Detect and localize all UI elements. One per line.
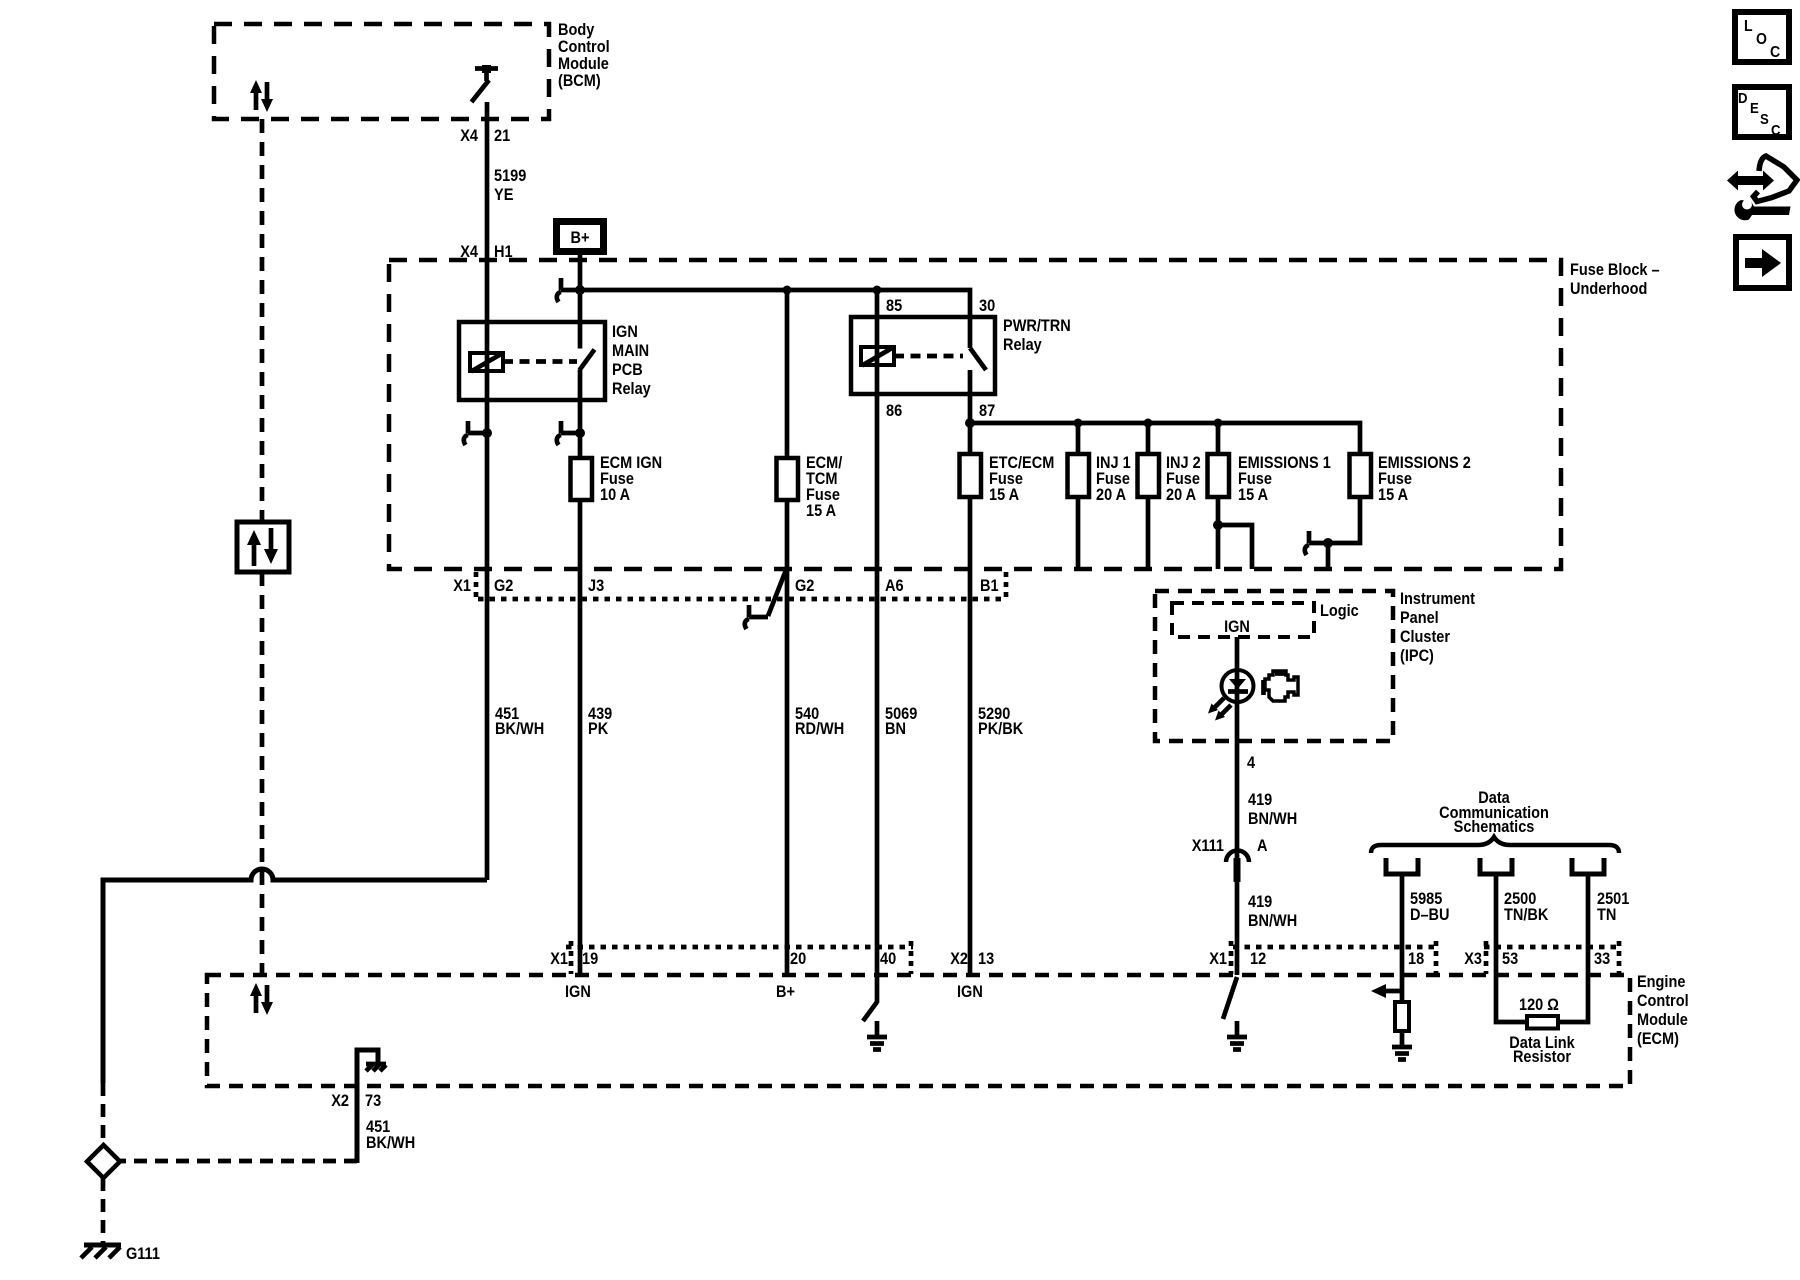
wire pin 18 to resistor bbox=[1400, 975, 1405, 1002]
label 5985 D-BU bbox=[1410, 890, 1450, 924]
junction dot bus at INJ2 bbox=[1144, 419, 1153, 428]
svg-text:BN: BN bbox=[885, 720, 906, 738]
wire 2500 TN/BK bbox=[1494, 876, 1499, 975]
label ECM IGN Fuse 10 A bbox=[600, 454, 662, 504]
label ETC/ECM Fuse 15 A bbox=[989, 454, 1054, 504]
label wire 540 RD/WH bbox=[795, 705, 844, 738]
svg-text:BK/WH: BK/WH bbox=[366, 1134, 415, 1152]
label EMISSIONS 2 Fuse 15 A bbox=[1378, 454, 1471, 504]
label INJ 1 Fuse 20 A bbox=[1096, 454, 1131, 504]
relay switch blade IGN MAIN bbox=[580, 350, 595, 371]
wire relay coil 85-86 (through PWR/TRN) bbox=[875, 290, 880, 975]
wire 87 distribution bus bbox=[970, 423, 1360, 454]
chassis ground inside ECM at pin 73 bbox=[357, 1050, 386, 1163]
svg-text:15 A: 15 A bbox=[1238, 486, 1268, 504]
svg-text:C: C bbox=[1771, 122, 1781, 139]
svg-text:X1: X1 bbox=[1209, 950, 1227, 968]
svg-text:D–BU: D–BU bbox=[1410, 906, 1450, 924]
svg-text:Module: Module bbox=[1637, 1011, 1688, 1029]
svg-text:53: 53 bbox=[1502, 950, 1518, 968]
module box IPC (Instrument Panel Cluster) bbox=[1155, 591, 1393, 741]
label pins 85 30 86 87 bbox=[886, 297, 995, 420]
icon next-page (right arrow button) bbox=[1736, 237, 1789, 288]
svg-text:B+: B+ bbox=[776, 983, 795, 1001]
svg-text:E: E bbox=[1750, 100, 1759, 117]
svg-text:20: 20 bbox=[790, 950, 806, 968]
relay U1 IGN MAIN PCB Relay box bbox=[459, 322, 605, 400]
wire ECM/TCM feed bbox=[785, 290, 790, 458]
svg-text:S: S bbox=[1760, 111, 1769, 128]
svg-text:4: 4 bbox=[1247, 754, 1256, 772]
switch to ground at pin 40 bbox=[863, 975, 877, 1021]
svg-text:15 A: 15 A bbox=[806, 502, 836, 520]
svg-text:BN/WH: BN/WH bbox=[1248, 810, 1297, 828]
label wire 439 PK bbox=[588, 705, 612, 738]
svg-text:IGN: IGN bbox=[565, 983, 591, 1001]
wire EMISSIONS2 output to terminal bbox=[1328, 497, 1360, 543]
fuse EMISSIONS 1 15A bbox=[1208, 454, 1230, 497]
svg-text:120 Ω: 120 Ω bbox=[1519, 996, 1559, 1014]
wire dashed down to splice bbox=[101, 1083, 106, 1146]
fuse ECM IGN 10A bbox=[571, 458, 593, 500]
svg-text:86: 86 bbox=[886, 402, 902, 420]
svg-text:40: 40 bbox=[880, 950, 896, 968]
off-page connector for wire 5985 bbox=[1386, 858, 1418, 874]
svg-text:B1: B1 bbox=[980, 577, 999, 595]
LED emission arrows bbox=[1208, 698, 1231, 721]
svg-text:13: 13 bbox=[978, 950, 994, 968]
fuse INJ 2 20A bbox=[1138, 454, 1160, 497]
wire INJ2 feed bbox=[1146, 423, 1151, 454]
svg-text:PCB: PCB bbox=[612, 361, 643, 379]
wire pin 53 to data link resistor bbox=[1496, 975, 1527, 1022]
ground symbol at pin 12 bbox=[1227, 1021, 1247, 1050]
serial-data arrows inside BCM bbox=[250, 80, 273, 112]
wire 419 BN/WH to ECM pin 12 bbox=[1235, 862, 1240, 975]
svg-text:419: 419 bbox=[1248, 791, 1272, 809]
svg-text:5199: 5199 bbox=[494, 167, 526, 185]
svg-text:MAIN: MAIN bbox=[612, 342, 649, 360]
label IPC name bbox=[1400, 590, 1475, 665]
terminal hook below relay on switch output bbox=[557, 421, 585, 445]
relay dashed actuating link PWR/TRN bbox=[894, 354, 963, 359]
off-page connector for wire 2501 bbox=[1572, 858, 1604, 874]
connector separator ticks fuse block bbox=[474, 572, 479, 600]
junction dot rail at ECM/TCM feed bbox=[783, 286, 792, 295]
junction dot 87 bus bbox=[965, 418, 975, 428]
connector X111 pass-through bbox=[1226, 851, 1249, 883]
wire INJ2 output bbox=[1146, 497, 1151, 569]
svg-text:X4: X4 bbox=[460, 127, 479, 145]
wire INJ1 feed bbox=[1076, 423, 1081, 454]
icon LOC button bbox=[1735, 12, 1789, 62]
svg-text:PK: PK bbox=[588, 720, 608, 738]
svg-text:D: D bbox=[1738, 90, 1748, 107]
wire pin 87 down to ETC/ECM fuse bbox=[968, 370, 973, 454]
wire dashed splice to G111 bbox=[101, 1178, 106, 1243]
label ECM name bbox=[1637, 973, 1689, 1048]
svg-text:21: 21 bbox=[494, 127, 510, 145]
off-page connector for wire 2500 bbox=[1480, 858, 1512, 874]
terminal hook EMISSIONS2 output bbox=[1305, 531, 1328, 555]
wire 2501 TN bbox=[1586, 876, 1591, 975]
connector separator ticks ECM left bbox=[571, 941, 911, 974]
svg-text:BN/WH: BN/WH bbox=[1248, 912, 1297, 930]
module box Fuse Block - Underhood bbox=[389, 260, 1561, 569]
svg-text:10 A: 10 A bbox=[600, 486, 630, 504]
label pin X2 73 bbox=[331, 1092, 381, 1110]
svg-text:419: 419 bbox=[1248, 893, 1272, 911]
label PWR/TRN Relay bbox=[1003, 317, 1071, 354]
power feed B+ symbol bbox=[557, 222, 604, 252]
serial data arrows inside ECM bbox=[250, 983, 273, 1015]
connector separator ticks ECM right bbox=[1231, 941, 1619, 974]
relay switch blade PWR/TRN bbox=[970, 348, 986, 370]
terminal hook at B+ rail bbox=[557, 278, 580, 302]
connector stub at fuse block G2 output bbox=[745, 570, 786, 629]
label 2501 TN bbox=[1597, 890, 1629, 924]
label 5199 YE bbox=[494, 167, 526, 204]
svg-text:(BCM): (BCM) bbox=[558, 72, 601, 90]
termination arrow at pin 18 bbox=[1371, 984, 1402, 998]
connector row dotted line ECM X3 bbox=[1484, 945, 1617, 950]
svg-text:IGN: IGN bbox=[612, 323, 638, 341]
svg-text:19: 19 bbox=[582, 950, 598, 968]
wire left dashed serial data line (BCM down) bbox=[260, 119, 265, 522]
switch (driver output) inside BCM bbox=[472, 65, 499, 102]
junction dot EMISSIONS2 terminal bbox=[1323, 538, 1333, 548]
label pin X1 19 IGN bbox=[550, 950, 598, 1001]
svg-text:Module: Module bbox=[558, 55, 609, 73]
wire EMISSIONS1 feed bbox=[1216, 423, 1221, 454]
svg-text:Resistor: Resistor bbox=[1513, 1048, 1572, 1066]
svg-text:J3: J3 bbox=[588, 577, 604, 595]
svg-text:30: 30 bbox=[979, 297, 995, 315]
label X4 H1 bbox=[460, 243, 512, 261]
ground symbol at pin 18 resistor bbox=[1392, 1047, 1412, 1060]
fuse ETC/ECM 15A bbox=[960, 454, 982, 497]
svg-text:X2: X2 bbox=[331, 1092, 349, 1110]
relay dashed actuating link bbox=[503, 359, 577, 364]
svg-text:85: 85 bbox=[886, 297, 902, 315]
svg-text:20 A: 20 A bbox=[1166, 486, 1196, 504]
svg-text:IGN: IGN bbox=[957, 983, 983, 1001]
wire resistor to ground bbox=[1400, 1031, 1405, 1046]
label fuse block name bbox=[1570, 261, 1660, 298]
label EMISSIONS 1 Fuse 15 A bbox=[1238, 454, 1331, 504]
label pin X1 12 bbox=[1209, 950, 1266, 968]
label pin 20 B+ bbox=[776, 950, 806, 1001]
svg-text:Cluster: Cluster bbox=[1400, 628, 1450, 646]
wire data link resistor to pin 33 bbox=[1558, 975, 1588, 1022]
wire EMISSIONS1 branch to edge bbox=[1218, 525, 1252, 569]
wire ECM IGN fuse output to ECM pin 19 bbox=[578, 500, 583, 975]
label wire 5069 BN bbox=[885, 705, 917, 738]
svg-text:G2: G2 bbox=[795, 577, 814, 595]
brace over data communication wires bbox=[1371, 837, 1619, 853]
wire dashed serial data line (to ECM) bbox=[260, 572, 265, 975]
wire 419 BN/WH to X111 bbox=[1235, 741, 1240, 862]
junction dot EMISSIONS1 branch bbox=[1213, 520, 1223, 530]
label wire 5290 PK/BK bbox=[978, 705, 1023, 738]
wire ECM/TCM fuse output to ECM pin 20 bbox=[785, 500, 790, 975]
wire INJ1 output bbox=[1076, 497, 1081, 569]
junction dot bus at INJ1 bbox=[1074, 419, 1083, 428]
label INJ 2 Fuse 20 A bbox=[1166, 454, 1201, 504]
wire ETC/ECM fuse output to ECM pin 13 bbox=[968, 497, 973, 975]
wire EMISSIONS1 output bbox=[1216, 497, 1221, 569]
icon DESC button bbox=[1735, 87, 1789, 139]
svg-text:Logic: Logic bbox=[1320, 602, 1359, 620]
svg-text:L: L bbox=[1744, 18, 1753, 35]
wire B+ feed down bbox=[578, 255, 583, 349]
svg-text:15 A: 15 A bbox=[1378, 486, 1408, 504]
svg-text:A: A bbox=[1257, 837, 1268, 855]
wire B+ rail to PWR/TRN relay pin 30 bbox=[580, 290, 970, 348]
svg-text:(IPC): (IPC) bbox=[1400, 647, 1434, 665]
svg-text:15 A: 15 A bbox=[989, 486, 1019, 504]
terminal hook below relay on coil return bbox=[464, 421, 492, 445]
label 419 BN/WH upper bbox=[1248, 791, 1297, 828]
svg-text:87: 87 bbox=[979, 402, 995, 420]
svg-text:O: O bbox=[1756, 31, 1767, 48]
svg-text:Engine: Engine bbox=[1637, 973, 1685, 991]
svg-text:BK/WH: BK/WH bbox=[495, 720, 544, 738]
svg-text:TN: TN bbox=[1597, 906, 1616, 924]
relay coil IGN MAIN bbox=[470, 353, 503, 372]
svg-text:X1: X1 bbox=[550, 950, 568, 968]
label wire 451 BK/WH bbox=[495, 705, 544, 738]
svg-text:X2: X2 bbox=[950, 950, 968, 968]
fuse block bottom connector labels X1 G2 J3 G2 A6 B1 bbox=[453, 577, 998, 595]
indicator LED (MIL lamp) bbox=[1222, 669, 1254, 741]
svg-text:(ECM): (ECM) bbox=[1637, 1030, 1679, 1048]
svg-text:20 A: 20 A bbox=[1096, 486, 1126, 504]
svg-text:G111: G111 bbox=[126, 1245, 160, 1263]
svg-text:12: 12 bbox=[1250, 950, 1266, 968]
label BCM name bbox=[558, 21, 610, 90]
svg-text:A6: A6 bbox=[885, 577, 904, 595]
wire IGN logic to indicator bbox=[1235, 637, 1240, 669]
wire coil feed through relay (5199 continues) bbox=[485, 264, 490, 880]
module box BCM (Body Control Module) bbox=[214, 24, 549, 119]
ground G111 bbox=[81, 1245, 160, 1263]
resistor R 120 ohm data link bbox=[1527, 1016, 1558, 1029]
wire dashed from X2 73 to splice bbox=[120, 1159, 357, 1164]
ground symbol at pin 40 bbox=[867, 1021, 887, 1050]
connector row dotted line ECM X1 right bbox=[1233, 945, 1434, 950]
label X4 21 bbox=[460, 127, 510, 145]
engine icon (check engine) bbox=[1264, 671, 1299, 701]
wire IGN MAIN switch output bbox=[578, 370, 583, 459]
wire 451 BK/WH run to ground (with hop over serial data line) bbox=[103, 869, 487, 1083]
svg-text:Relay: Relay bbox=[612, 380, 651, 398]
wire EMISSIONS2 stub to edge bbox=[1326, 543, 1331, 569]
label Data Link Resistor bbox=[1509, 1034, 1575, 1066]
wire 5199 YE from BCM to fuse block bbox=[485, 102, 490, 264]
label 2500 TN/BK bbox=[1504, 890, 1548, 924]
svg-text:YE: YE bbox=[494, 186, 513, 204]
label Data Communication Schematics bbox=[1439, 789, 1549, 836]
splice diamond bbox=[87, 1145, 120, 1178]
svg-text:Control: Control bbox=[1637, 992, 1689, 1010]
svg-text:33: 33 bbox=[1594, 950, 1610, 968]
svg-text:TN/BK: TN/BK bbox=[1504, 906, 1548, 924]
label 419 BN/WH lower bbox=[1248, 893, 1297, 930]
svg-text:73: 73 bbox=[365, 1092, 381, 1110]
label ECM/TCM Fuse 15 A bbox=[806, 454, 843, 520]
icon schematic-navigation (double arrow, loop arrow, wrench) bbox=[1727, 156, 1797, 220]
svg-text:IGN: IGN bbox=[1224, 618, 1250, 636]
svg-text:Body: Body bbox=[558, 21, 595, 39]
wire 5985 D-BU bbox=[1400, 876, 1405, 975]
connector row dotted line ECM X1 left bbox=[566, 945, 913, 950]
svg-text:G2: G2 bbox=[494, 577, 513, 595]
svg-text:Relay: Relay bbox=[1003, 336, 1042, 354]
svg-text:C: C bbox=[1770, 44, 1781, 61]
svg-text:X111: X111 bbox=[1192, 837, 1224, 855]
svg-text:Control: Control bbox=[558, 38, 610, 56]
junction dot B+ rail bbox=[575, 285, 585, 295]
label wire 451 BK/WH (ECM ground) bbox=[366, 1118, 415, 1152]
svg-text:RD/WH: RD/WH bbox=[795, 720, 844, 738]
resistor pull-up at pin 18 bbox=[1395, 1002, 1409, 1031]
serial data link symbol (boxed arrows) bbox=[237, 522, 289, 572]
svg-text:Panel: Panel bbox=[1400, 609, 1439, 627]
svg-text:Instrument: Instrument bbox=[1400, 590, 1475, 608]
relay U2 PWR/TRN Relay box bbox=[851, 317, 995, 394]
connector row dotted line below fuse block bbox=[478, 597, 1002, 602]
svg-text:Fuse Block –: Fuse Block – bbox=[1570, 261, 1660, 279]
junction dot bus at EMISSIONS1 bbox=[1214, 419, 1223, 428]
logic box IGN inside IPC bbox=[1172, 603, 1314, 637]
relay coil PWR/TRN bbox=[861, 347, 894, 366]
switch to ground at pin 12 bbox=[1223, 977, 1237, 1019]
svg-text:Underhood: Underhood bbox=[1570, 280, 1647, 298]
svg-text:B+: B+ bbox=[571, 229, 590, 247]
label pin X2 13 IGN bbox=[950, 950, 994, 1001]
fuse EMISSIONS 2 15A bbox=[1350, 454, 1372, 497]
label X111 A bbox=[1192, 837, 1268, 855]
module box ECM (Engine Control Module) bbox=[207, 975, 1630, 1086]
label IGN MAIN PCB Relay bbox=[612, 323, 651, 398]
fuse ECM/TCM 15A bbox=[777, 458, 799, 500]
svg-text:18: 18 bbox=[1408, 950, 1424, 968]
svg-text:X1: X1 bbox=[453, 577, 471, 595]
svg-text:PWR/TRN: PWR/TRN bbox=[1003, 317, 1071, 335]
junction dot rail at pin 85 feed bbox=[873, 286, 882, 295]
fuse INJ 1 20A bbox=[1068, 454, 1090, 497]
svg-text:X3: X3 bbox=[1464, 950, 1482, 968]
svg-text:PK/BK: PK/BK bbox=[978, 720, 1023, 738]
